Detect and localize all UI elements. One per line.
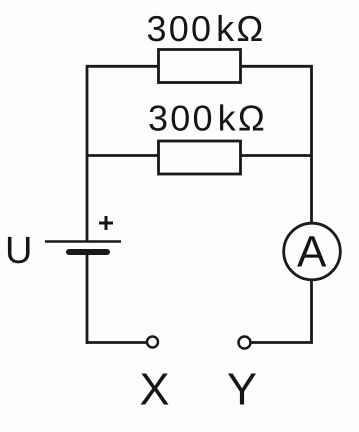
label U: [5, 230, 32, 272]
svg-text:A: A: [297, 228, 327, 277]
resistor R2: [159, 141, 241, 174]
terminal Y (open circle): [239, 337, 251, 349]
wire: bottom-left to terminal X: [86, 341, 146, 344]
wire: terminal Y to bottom-right: [251, 341, 313, 344]
battery U: short thick negative plate: [69, 249, 107, 255]
value label 300 kΩ (R2): [148, 98, 267, 139]
wire: R2 row horizontal: [87, 154, 312, 157]
wire: right rail below ammeter down to bottom corner: [310, 279, 313, 344]
label X: [140, 364, 170, 415]
svg-text:Y: Y: [227, 364, 257, 415]
wire: right rail (top corner down to ammeter): [310, 65, 313, 224]
svg-text:U: U: [5, 230, 32, 272]
label Y: [227, 364, 257, 415]
value label 300 kΩ (R1): [147, 8, 266, 49]
svg-text:300kΩ: 300kΩ: [148, 98, 267, 139]
ammeter label A: [297, 228, 327, 277]
resistor R1: [159, 50, 241, 83]
svg-text:X: X: [140, 364, 170, 415]
wire: left rail below battery down to bottom corner: [86, 255, 89, 344]
wire: left rail (top corner down to battery +): [86, 65, 89, 241]
terminal X (open circle): [147, 337, 158, 348]
battery U: long thin positive plate: [45, 240, 121, 242]
wire: top horizontal (node between U+ and R1/R2 left): [87, 65, 312, 68]
plus sign (+): [99, 216, 113, 230]
svg-text:300kΩ: 300kΩ: [147, 8, 266, 49]
ammeter U1 circle: [284, 223, 341, 280]
